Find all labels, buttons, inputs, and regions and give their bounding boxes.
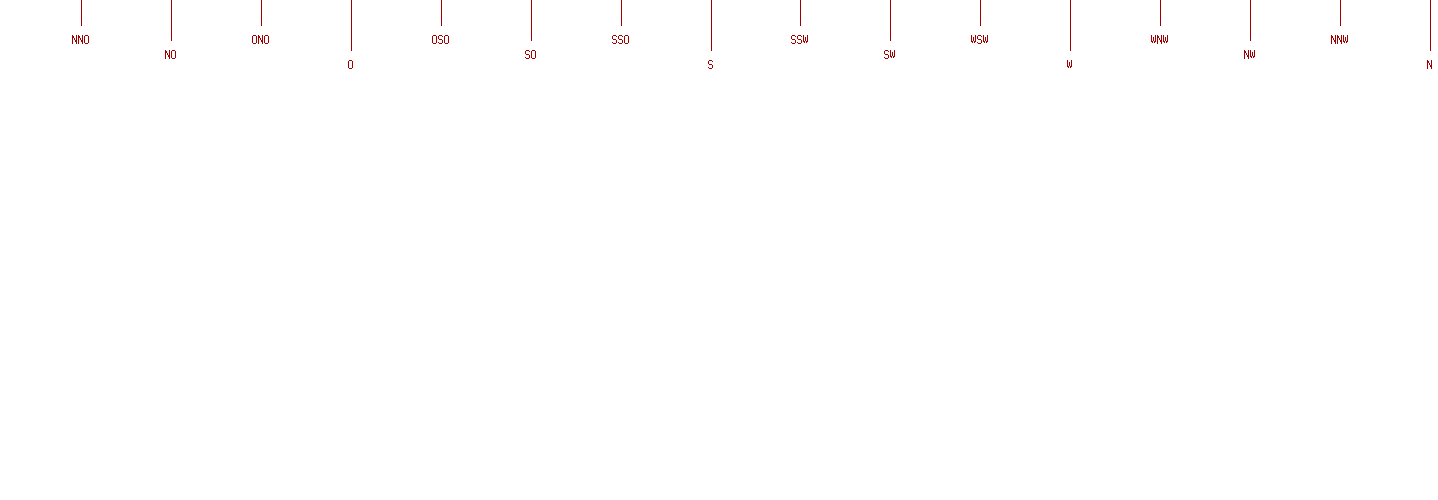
label SSW [791, 35, 808, 44]
tick NNW [1340, 0, 1341, 26]
tick SO [531, 0, 532, 41]
tick WNW [1160, 0, 1161, 26]
tick NNO [81, 0, 82, 26]
label NNW [1331, 35, 1348, 44]
label S [708, 60, 713, 69]
label SW [884, 50, 895, 59]
tick SW [890, 0, 891, 41]
tick NW [1250, 0, 1251, 41]
label W [1067, 60, 1072, 68]
tick OSO [441, 0, 442, 26]
tick SSO [621, 0, 622, 26]
label ONO [252, 35, 269, 44]
label NW [1244, 50, 1255, 59]
label SSO [612, 35, 629, 44]
label SO [525, 50, 536, 59]
tick NO [171, 0, 172, 41]
label WSW [971, 35, 988, 44]
tick WSW [980, 0, 981, 26]
label O [348, 60, 353, 69]
label N [1427, 60, 1432, 69]
tick S [711, 0, 712, 51]
tick N [1430, 0, 1431, 51]
tick O [351, 0, 352, 51]
label NO [165, 50, 176, 59]
tick SSW [800, 0, 801, 26]
label NNO [72, 35, 89, 44]
label WNW [1151, 35, 1168, 44]
tick W [1070, 0, 1071, 51]
label OSO [432, 35, 449, 44]
tick ONO [261, 0, 262, 26]
